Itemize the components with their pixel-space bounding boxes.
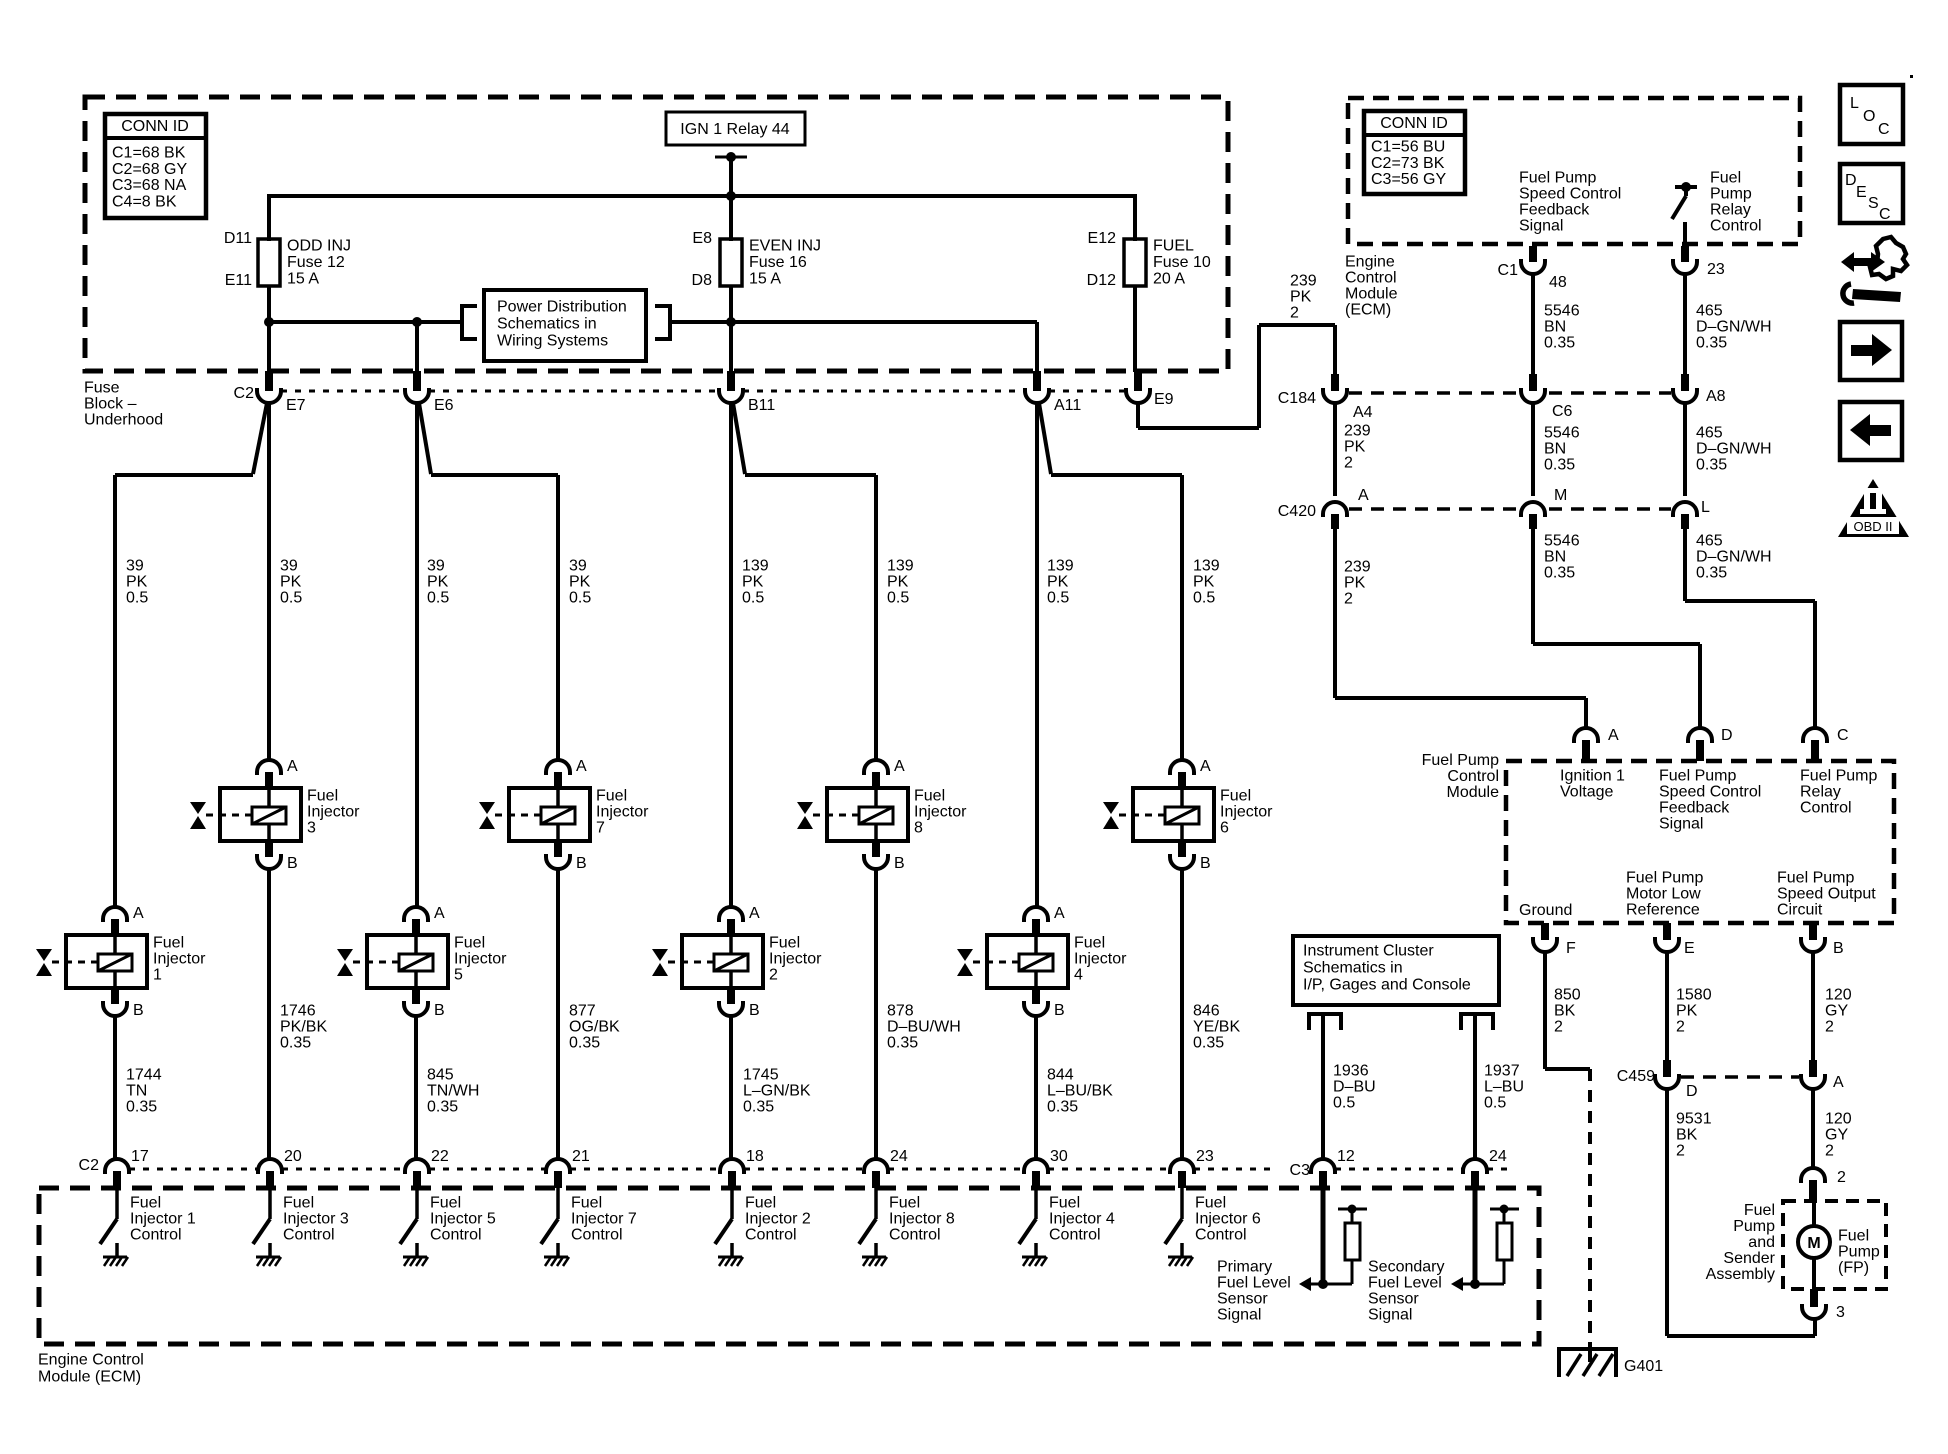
svg-text:E: E xyxy=(1856,184,1867,201)
svg-text:Control: Control xyxy=(430,1227,482,1244)
svg-text:Fuel Pump: Fuel Pump xyxy=(1422,752,1499,769)
svg-text:2: 2 xyxy=(1825,1019,1834,1036)
svg-text:PK/BK: PK/BK xyxy=(280,1019,327,1036)
svg-text:39: 39 xyxy=(280,558,298,575)
svg-text:15 A: 15 A xyxy=(749,271,781,288)
svg-text:Fuel: Fuel xyxy=(1838,1228,1869,1245)
svg-text:Primary: Primary xyxy=(1217,1259,1272,1276)
svg-text:Assembly: Assembly xyxy=(1706,1266,1775,1283)
svg-text:1580: 1580 xyxy=(1676,987,1712,1004)
svg-text:Signal: Signal xyxy=(1368,1307,1412,1324)
svg-text:Fuel Level: Fuel Level xyxy=(1217,1275,1291,1292)
svg-text:139: 139 xyxy=(1193,558,1220,575)
svg-text:Control: Control xyxy=(130,1227,182,1244)
svg-text:2: 2 xyxy=(1676,1019,1685,1036)
svg-text:A: A xyxy=(576,758,587,775)
svg-text:5546: 5546 xyxy=(1544,425,1580,442)
svg-text:Fuel: Fuel xyxy=(1074,935,1105,952)
svg-text:139: 139 xyxy=(742,558,769,575)
svg-text:E11: E11 xyxy=(225,272,252,289)
svg-text:A: A xyxy=(894,758,905,775)
svg-text:0.5: 0.5 xyxy=(427,590,449,607)
svg-text:845: 845 xyxy=(427,1067,454,1084)
svg-text:8: 8 xyxy=(914,820,923,837)
svg-text:C3=56 GY: C3=56 GY xyxy=(1371,171,1446,188)
svg-text:20: 20 xyxy=(284,1148,302,1165)
svg-text:E7: E7 xyxy=(286,397,306,414)
svg-text:Injector: Injector xyxy=(769,951,822,968)
svg-text:Fuel Pump: Fuel Pump xyxy=(1659,768,1736,785)
svg-text:Signal: Signal xyxy=(1519,218,1563,235)
svg-text:Fuel Pump: Fuel Pump xyxy=(1626,870,1703,887)
svg-text:Control: Control xyxy=(1447,768,1499,785)
svg-text:S: S xyxy=(1868,195,1879,212)
svg-text:C6: C6 xyxy=(1552,403,1573,420)
svg-text:Speed Control: Speed Control xyxy=(1519,186,1621,203)
svg-text:Relay: Relay xyxy=(1710,202,1751,219)
svg-text:Control: Control xyxy=(1800,800,1852,817)
svg-text:A: A xyxy=(133,905,144,922)
svg-text:Signal: Signal xyxy=(1659,816,1703,833)
svg-text:1936: 1936 xyxy=(1333,1063,1369,1080)
svg-text:850: 850 xyxy=(1554,987,1581,1004)
svg-text:2: 2 xyxy=(1837,1169,1846,1186)
svg-text:21: 21 xyxy=(572,1148,590,1165)
svg-text:Fuel: Fuel xyxy=(1710,170,1741,187)
svg-text:PK: PK xyxy=(1344,439,1366,456)
svg-text:Fuel: Fuel xyxy=(596,788,627,805)
svg-text:F: F xyxy=(1566,940,1576,957)
svg-text:Fuse 16: Fuse 16 xyxy=(749,254,807,271)
svg-text:C: C xyxy=(1837,727,1849,744)
svg-text:Fuel: Fuel xyxy=(1195,1195,1226,1212)
svg-text:2: 2 xyxy=(1554,1019,1563,1036)
svg-text:E12: E12 xyxy=(1088,230,1117,247)
svg-text:24: 24 xyxy=(1489,1148,1507,1165)
svg-text:4: 4 xyxy=(1074,967,1083,984)
svg-text:D12: D12 xyxy=(1087,272,1116,289)
svg-text:Control: Control xyxy=(1710,218,1762,235)
svg-text:7: 7 xyxy=(596,820,605,837)
svg-text:Injector 8: Injector 8 xyxy=(889,1211,955,1228)
svg-text:G401: G401 xyxy=(1624,1358,1663,1375)
svg-text:0.35: 0.35 xyxy=(1696,565,1727,582)
svg-text:Injector: Injector xyxy=(1220,804,1273,821)
svg-text:L–BU/BK: L–BU/BK xyxy=(1047,1083,1113,1100)
svg-text:0.35: 0.35 xyxy=(1696,335,1727,352)
svg-text:C: C xyxy=(1878,121,1890,138)
svg-text:0.35: 0.35 xyxy=(1047,1099,1078,1116)
svg-text:Injector 5: Injector 5 xyxy=(430,1211,496,1228)
svg-text:0.35: 0.35 xyxy=(1193,1035,1224,1052)
svg-text:Control: Control xyxy=(889,1227,941,1244)
svg-text:Fuel: Fuel xyxy=(454,935,485,952)
svg-text:Fuel: Fuel xyxy=(307,788,338,805)
svg-text:M: M xyxy=(1807,1235,1820,1252)
svg-text:Engine: Engine xyxy=(1345,254,1395,271)
svg-text:C459: C459 xyxy=(1617,1068,1655,1085)
svg-text:A: A xyxy=(434,905,445,922)
svg-text:C2=68 GY: C2=68 GY xyxy=(112,161,187,178)
svg-text:Control: Control xyxy=(571,1227,623,1244)
svg-text:BN: BN xyxy=(1544,441,1566,458)
svg-text:A: A xyxy=(1608,727,1619,744)
svg-text:39: 39 xyxy=(126,558,144,575)
svg-text:A: A xyxy=(287,758,298,775)
svg-text:L: L xyxy=(1701,499,1710,516)
svg-text:A: A xyxy=(1358,487,1369,504)
svg-text:Speed Control: Speed Control xyxy=(1659,784,1761,801)
svg-text:OBD II: OBD II xyxy=(1853,519,1892,534)
svg-text:PK: PK xyxy=(427,574,449,591)
svg-text:Fuel: Fuel xyxy=(1049,1195,1080,1212)
svg-text:Fuel: Fuel xyxy=(889,1195,920,1212)
svg-text:CONN ID: CONN ID xyxy=(121,118,189,135)
svg-text:Control: Control xyxy=(283,1227,335,1244)
svg-text:Signal: Signal xyxy=(1217,1307,1261,1324)
svg-text:A4: A4 xyxy=(1353,404,1373,421)
svg-text:0.35: 0.35 xyxy=(126,1099,157,1116)
svg-text:Voltage: Voltage xyxy=(1560,784,1613,801)
svg-text:Pump: Pump xyxy=(1710,186,1752,203)
svg-text:0.5: 0.5 xyxy=(742,590,764,607)
svg-text:Sender: Sender xyxy=(1723,1250,1775,1267)
svg-text:Engine Control: Engine Control xyxy=(38,1352,144,1369)
svg-text:844: 844 xyxy=(1047,1067,1074,1084)
svg-text:BN: BN xyxy=(1544,319,1566,336)
svg-text:Fuel: Fuel xyxy=(914,788,945,805)
svg-text:C4=8 BK: C4=8 BK xyxy=(112,193,177,210)
svg-text:D: D xyxy=(1845,172,1857,189)
svg-text:Pump: Pump xyxy=(1838,1244,1880,1261)
svg-text:0.5: 0.5 xyxy=(1193,590,1215,607)
svg-text:Circuit: Circuit xyxy=(1777,902,1823,919)
svg-text:Injector: Injector xyxy=(914,804,967,821)
svg-text:Secondary: Secondary xyxy=(1368,1259,1445,1276)
svg-text:BK: BK xyxy=(1676,1127,1698,1144)
svg-text:Fuse: Fuse xyxy=(84,380,120,397)
svg-text:D–BU: D–BU xyxy=(1333,1079,1376,1096)
svg-text:C2: C2 xyxy=(79,1157,100,1174)
svg-text:L: L xyxy=(1850,95,1859,112)
svg-text:(FP): (FP) xyxy=(1838,1260,1869,1277)
svg-text:12: 12 xyxy=(1337,1148,1355,1165)
svg-text:2: 2 xyxy=(1290,305,1299,322)
svg-text:and: and xyxy=(1748,1234,1775,1251)
svg-text:39: 39 xyxy=(427,558,445,575)
svg-text:Injector: Injector xyxy=(596,804,649,821)
svg-text:3: 3 xyxy=(1836,1304,1845,1321)
svg-text:B: B xyxy=(133,1002,144,1019)
svg-text:Fuel: Fuel xyxy=(1220,788,1251,805)
svg-text:1: 1 xyxy=(153,967,162,984)
svg-text:Injector 4: Injector 4 xyxy=(1049,1211,1115,1228)
svg-text:A8: A8 xyxy=(1706,388,1726,405)
svg-text:PK: PK xyxy=(126,574,148,591)
svg-text:BN: BN xyxy=(1544,549,1566,566)
svg-text:D–GN/WH: D–GN/WH xyxy=(1696,549,1772,566)
svg-text:PK: PK xyxy=(569,574,591,591)
svg-text:TN/WH: TN/WH xyxy=(427,1083,479,1100)
svg-text:6: 6 xyxy=(1220,820,1229,837)
svg-text:Injector: Injector xyxy=(153,951,206,968)
svg-text:C184: C184 xyxy=(1278,390,1316,407)
svg-text:D: D xyxy=(1721,727,1733,744)
svg-text:Power Distribution: Power Distribution xyxy=(497,299,627,316)
svg-text:Wiring Systems: Wiring Systems xyxy=(497,333,608,350)
svg-text:(ECM): (ECM) xyxy=(1345,302,1391,319)
svg-text:ODD INJ: ODD INJ xyxy=(287,238,351,255)
svg-text:15 A: 15 A xyxy=(287,271,319,288)
svg-text:2: 2 xyxy=(1676,1143,1685,1160)
svg-text:5546: 5546 xyxy=(1544,303,1580,320)
svg-text:D8: D8 xyxy=(692,272,713,289)
svg-text:877: 877 xyxy=(569,1003,596,1020)
svg-text:139: 139 xyxy=(1047,558,1074,575)
svg-text:465: 465 xyxy=(1696,533,1723,550)
svg-text:YE/BK: YE/BK xyxy=(1193,1019,1240,1036)
svg-text:0.35: 0.35 xyxy=(569,1035,600,1052)
svg-text:5546: 5546 xyxy=(1544,533,1580,550)
svg-text:Control: Control xyxy=(1195,1227,1247,1244)
svg-text:PK: PK xyxy=(280,574,302,591)
svg-text:3: 3 xyxy=(307,820,316,837)
svg-text:17: 17 xyxy=(131,1148,149,1165)
svg-text:C3=68 NA: C3=68 NA xyxy=(112,177,187,194)
svg-text:23: 23 xyxy=(1196,1148,1214,1165)
svg-text:PK: PK xyxy=(1047,574,1069,591)
svg-text:Fuel: Fuel xyxy=(571,1195,602,1212)
svg-text:PK: PK xyxy=(1676,1003,1698,1020)
svg-text:C: C xyxy=(1879,206,1891,223)
svg-text:Ignition 1: Ignition 1 xyxy=(1560,768,1625,785)
svg-text:139: 139 xyxy=(887,558,914,575)
svg-text:Fuel: Fuel xyxy=(769,935,800,952)
svg-text:Fuel: Fuel xyxy=(153,935,184,952)
svg-text:Fuel Pump: Fuel Pump xyxy=(1519,170,1596,187)
svg-text:Underhood: Underhood xyxy=(84,412,163,429)
svg-text:B: B xyxy=(576,855,587,872)
svg-text:Injector 1: Injector 1 xyxy=(130,1211,196,1228)
svg-text:0.5: 0.5 xyxy=(1047,590,1069,607)
svg-text:9531: 9531 xyxy=(1676,1111,1712,1128)
svg-text:A: A xyxy=(1833,1074,1844,1091)
svg-text:TN: TN xyxy=(126,1083,147,1100)
svg-text:Sensor: Sensor xyxy=(1217,1291,1268,1308)
svg-text:L–GN/BK: L–GN/BK xyxy=(743,1083,811,1100)
svg-text:0.5: 0.5 xyxy=(1484,1095,1506,1112)
svg-text:0.35: 0.35 xyxy=(1544,565,1575,582)
svg-text:Control: Control xyxy=(1345,270,1397,287)
svg-text:B: B xyxy=(749,1002,760,1019)
svg-text:Fuel: Fuel xyxy=(745,1195,776,1212)
svg-text:1744: 1744 xyxy=(126,1067,162,1084)
svg-text:878: 878 xyxy=(887,1003,914,1020)
svg-text:EVEN INJ: EVEN INJ xyxy=(749,238,821,255)
svg-text:1745: 1745 xyxy=(743,1067,779,1084)
svg-text:Fuel Pump: Fuel Pump xyxy=(1777,870,1854,887)
svg-text:Control: Control xyxy=(745,1227,797,1244)
svg-text:39: 39 xyxy=(569,558,587,575)
svg-text:Feedback: Feedback xyxy=(1659,800,1730,817)
svg-text:Fuel Level: Fuel Level xyxy=(1368,1275,1442,1292)
svg-text:0.35: 0.35 xyxy=(280,1035,311,1052)
svg-text:Pump: Pump xyxy=(1733,1218,1775,1235)
svg-text:Block –: Block – xyxy=(84,396,137,413)
svg-text:D: D xyxy=(1686,1083,1698,1100)
svg-text:0.35: 0.35 xyxy=(743,1099,774,1116)
svg-text:20 A: 20 A xyxy=(1153,271,1185,288)
svg-text:GY: GY xyxy=(1825,1003,1848,1020)
svg-text:E6: E6 xyxy=(434,397,454,414)
svg-text:23: 23 xyxy=(1707,261,1725,278)
svg-text:C1: C1 xyxy=(1498,262,1519,279)
svg-text:Fuel: Fuel xyxy=(130,1195,161,1212)
svg-text:Fuel: Fuel xyxy=(430,1195,461,1212)
svg-text:B: B xyxy=(1054,1002,1065,1019)
svg-text:Reference: Reference xyxy=(1626,902,1700,919)
svg-text:E8: E8 xyxy=(692,230,712,247)
svg-text:Motor Low: Motor Low xyxy=(1626,886,1701,903)
svg-text:1937: 1937 xyxy=(1484,1063,1520,1080)
svg-text:Schematics in: Schematics in xyxy=(1303,960,1403,977)
svg-text:D–GN/WH: D–GN/WH xyxy=(1696,319,1772,336)
svg-text:A: A xyxy=(749,905,760,922)
svg-text:Injector 3: Injector 3 xyxy=(283,1211,349,1228)
svg-text:B: B xyxy=(287,855,298,872)
svg-text:Sensor: Sensor xyxy=(1368,1291,1419,1308)
svg-text:2: 2 xyxy=(1344,591,1353,608)
svg-text:5: 5 xyxy=(454,967,463,984)
svg-text:Speed Output: Speed Output xyxy=(1777,886,1876,903)
svg-text:Injector 6: Injector 6 xyxy=(1195,1211,1261,1228)
svg-text:GY: GY xyxy=(1825,1127,1848,1144)
svg-text:120: 120 xyxy=(1825,1111,1852,1128)
svg-text:D–BU/WH: D–BU/WH xyxy=(887,1019,961,1036)
svg-text:Injector: Injector xyxy=(454,951,507,968)
svg-text:O: O xyxy=(1863,108,1875,125)
svg-text:0.35: 0.35 xyxy=(887,1035,918,1052)
svg-text:22: 22 xyxy=(431,1148,449,1165)
svg-text:0.5: 0.5 xyxy=(280,590,302,607)
svg-text:239: 239 xyxy=(1344,559,1371,576)
svg-text:CONN ID: CONN ID xyxy=(1380,115,1448,132)
svg-text:B: B xyxy=(1833,940,1844,957)
svg-text:Relay: Relay xyxy=(1800,784,1841,801)
svg-text:C1=68 BK: C1=68 BK xyxy=(112,145,186,162)
svg-text:B: B xyxy=(894,855,905,872)
svg-text:Injector: Injector xyxy=(1074,951,1127,968)
svg-text:Injector 2: Injector 2 xyxy=(745,1211,811,1228)
svg-text:D–GN/WH: D–GN/WH xyxy=(1696,441,1772,458)
svg-text:C2=73 BK: C2=73 BK xyxy=(1371,155,1445,172)
svg-text:24: 24 xyxy=(890,1148,908,1165)
svg-text:Control: Control xyxy=(1049,1227,1101,1244)
svg-text:Module: Module xyxy=(1447,784,1500,801)
svg-text:FUEL: FUEL xyxy=(1153,238,1194,255)
svg-text:Fuel: Fuel xyxy=(283,1195,314,1212)
svg-text:PK: PK xyxy=(1193,574,1215,591)
svg-text:I/P, Gages and Console: I/P, Gages and Console xyxy=(1303,977,1471,994)
svg-text:0.5: 0.5 xyxy=(1333,1095,1355,1112)
svg-text:Fuel: Fuel xyxy=(1744,1202,1775,1219)
svg-text:Instrument Cluster: Instrument Cluster xyxy=(1303,943,1434,960)
svg-text:239: 239 xyxy=(1290,273,1317,290)
svg-text:C1=56 BU: C1=56 BU xyxy=(1371,139,1445,156)
svg-text:Fuse 12: Fuse 12 xyxy=(287,254,345,271)
svg-text:Module: Module xyxy=(1345,286,1398,303)
svg-text:0.35: 0.35 xyxy=(1544,335,1575,352)
svg-text:Fuse 10: Fuse 10 xyxy=(1153,254,1211,271)
svg-text:30: 30 xyxy=(1050,1148,1068,1165)
svg-text:PK: PK xyxy=(887,574,909,591)
svg-text:18: 18 xyxy=(746,1148,764,1165)
svg-text:Module (ECM): Module (ECM) xyxy=(38,1369,141,1386)
svg-text:239: 239 xyxy=(1344,423,1371,440)
svg-text:846: 846 xyxy=(1193,1003,1220,1020)
svg-text:Injector 7: Injector 7 xyxy=(571,1211,637,1228)
svg-text:B: B xyxy=(1200,855,1211,872)
svg-text:M: M xyxy=(1554,487,1567,504)
svg-text:2: 2 xyxy=(769,967,778,984)
svg-text:C2: C2 xyxy=(234,385,255,402)
svg-text:L–BU: L–BU xyxy=(1484,1079,1524,1096)
svg-text:Feedback: Feedback xyxy=(1519,202,1590,219)
svg-text:A11: A11 xyxy=(1054,397,1081,414)
svg-text:OG/BK: OG/BK xyxy=(569,1019,620,1036)
svg-text:465: 465 xyxy=(1696,303,1723,320)
svg-text:PK: PK xyxy=(1344,575,1366,592)
svg-text:PK: PK xyxy=(742,574,764,591)
svg-text:Fuel Pump: Fuel Pump xyxy=(1800,768,1877,785)
svg-text:B: B xyxy=(434,1002,445,1019)
svg-text:B11: B11 xyxy=(748,397,775,414)
svg-text:D11: D11 xyxy=(224,230,252,247)
svg-text:A: A xyxy=(1200,758,1211,775)
svg-text:2: 2 xyxy=(1825,1143,1834,1160)
svg-text:Ground: Ground xyxy=(1519,902,1572,919)
svg-text:0.35: 0.35 xyxy=(1544,457,1575,474)
svg-text:IGN 1 Relay 44: IGN 1 Relay 44 xyxy=(680,121,789,138)
svg-text:0.5: 0.5 xyxy=(569,590,591,607)
svg-text:0.5: 0.5 xyxy=(887,590,909,607)
svg-text:PK: PK xyxy=(1290,289,1312,306)
svg-text:A: A xyxy=(1054,905,1065,922)
svg-text:1746: 1746 xyxy=(280,1003,316,1020)
svg-text:E9: E9 xyxy=(1154,391,1174,408)
svg-text:C3: C3 xyxy=(1290,1162,1311,1179)
svg-text:BK: BK xyxy=(1554,1003,1576,1020)
svg-text:2: 2 xyxy=(1344,455,1353,472)
svg-text:0.35: 0.35 xyxy=(427,1099,458,1116)
svg-text:0.5: 0.5 xyxy=(126,590,148,607)
svg-text:C420: C420 xyxy=(1278,503,1316,520)
svg-text:E: E xyxy=(1684,940,1695,957)
svg-text:120: 120 xyxy=(1825,987,1852,1004)
svg-text:48: 48 xyxy=(1549,274,1567,291)
svg-text:465: 465 xyxy=(1696,425,1723,442)
svg-text:Injector: Injector xyxy=(307,804,360,821)
svg-text:Schematics in: Schematics in xyxy=(497,316,597,333)
svg-text:0.35: 0.35 xyxy=(1696,457,1727,474)
